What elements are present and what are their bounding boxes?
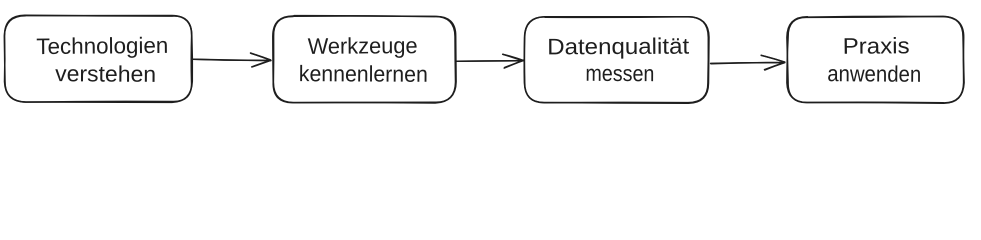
process box 3 (Datenqualitaet messen)	[524, 17, 709, 104]
svg-text:kennenlernen: kennenlernen	[299, 61, 428, 87]
svg-text:Datenqualität: Datenqualität	[547, 34, 690, 60]
svg-text:messen: messen	[585, 61, 654, 86]
svg-text:Technologien: Technologien	[36, 33, 168, 59]
process box 1 (Technologien verstehen)	[4, 15, 192, 102]
process box 2 (Werkzeuge kennenlernen)	[273, 16, 456, 103]
process box 4 (Praxis anwenden)	[787, 16, 964, 103]
svg-text:Werkzeuge: Werkzeuge	[308, 33, 418, 59]
arrow 2 (box2 to box3)	[457, 54, 523, 68]
svg-text:Praxis: Praxis	[843, 33, 910, 59]
svg-text:anwenden: anwenden	[827, 61, 921, 87]
arrow 3 (box3 to box4)	[711, 55, 785, 70]
arrow 1 (box1 to box2)	[193, 53, 271, 67]
svg-text:verstehen: verstehen	[55, 61, 156, 87]
